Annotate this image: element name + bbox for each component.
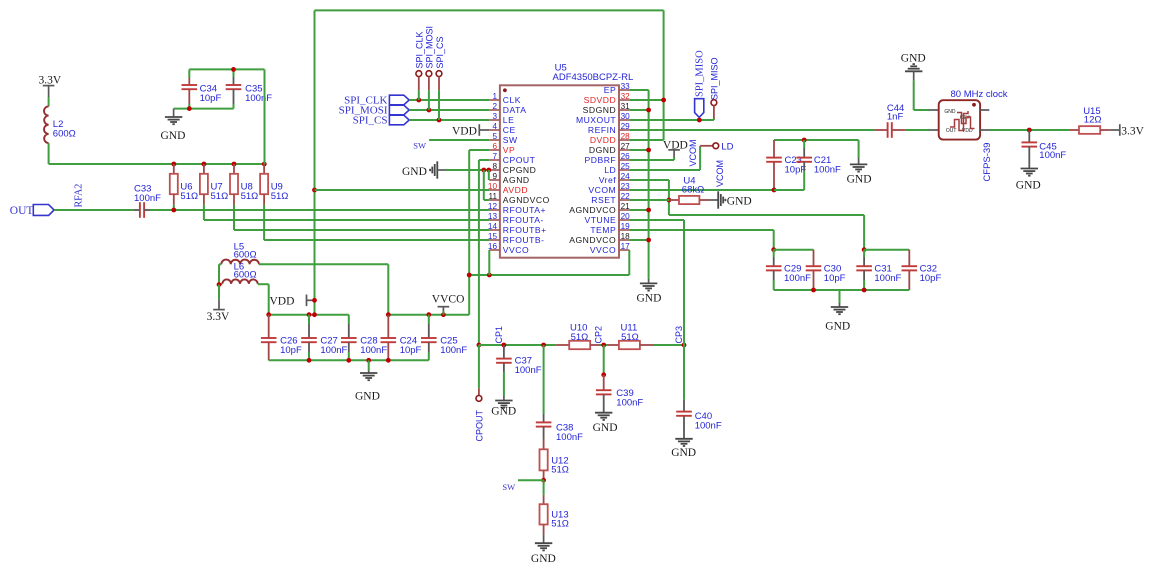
svg-text:6: 6 bbox=[492, 142, 497, 151]
global label OUT bbox=[33, 205, 54, 216]
global label SPI_CS bbox=[389, 115, 409, 125]
svg-text:7: 7 bbox=[492, 152, 497, 161]
capacitor C38 100nF bbox=[543, 345, 545, 414]
wire SDVDD bbox=[629, 99, 663, 101]
svg-text:10pF: 10pF bbox=[920, 273, 942, 284]
junction bbox=[202, 162, 207, 167]
ground bbox=[905, 64, 922, 71]
svg-text:SPI_CS: SPI_CS bbox=[435, 36, 445, 68]
svg-text:600Ω: 600Ω bbox=[234, 250, 257, 261]
svg-text:11: 11 bbox=[489, 192, 498, 201]
wire bbox=[774, 249, 814, 251]
capacitor C24 10pF bbox=[387, 315, 389, 338]
svg-text:51Ω: 51Ω bbox=[621, 332, 639, 343]
svg-text:GND: GND bbox=[161, 130, 186, 142]
pin 12 RFOUTA+ bbox=[489, 209, 500, 211]
svg-text:PDBRF: PDBRF bbox=[585, 155, 617, 165]
pin 5 SW bbox=[489, 139, 500, 141]
svg-text:CPOUT: CPOUT bbox=[475, 409, 485, 441]
wire SPI_CS bbox=[409, 119, 489, 121]
resistor U4 68k&#937; bbox=[669, 199, 679, 201]
svg-text:27: 27 bbox=[621, 142, 631, 151]
ground bbox=[831, 307, 848, 314]
wire CPOUT bbox=[479, 159, 489, 161]
capacitor C26 10pF bbox=[268, 315, 270, 338]
global label SPI_MISO bbox=[695, 99, 704, 118]
resistor U6 51&#937; bbox=[173, 164, 175, 174]
junction bbox=[541, 343, 546, 348]
svg-text:SPI_CLK: SPI_CLK bbox=[415, 31, 425, 68]
ground bbox=[430, 161, 437, 178]
wire bbox=[654, 344, 684, 346]
pin 9 AGND bbox=[489, 179, 500, 181]
svg-text:CPGND: CPGND bbox=[503, 165, 537, 175]
junction bbox=[862, 288, 867, 293]
junction bbox=[262, 162, 267, 167]
oscillator internal symbol bbox=[950, 111, 968, 131]
wire gnd bus bbox=[648, 90, 650, 279]
junction bbox=[541, 478, 546, 483]
pin 27 DGND bbox=[619, 149, 629, 151]
svg-text:RFOUTA+: RFOUTA+ bbox=[503, 205, 546, 215]
junction bbox=[232, 162, 237, 167]
wire C23 top rail bbox=[774, 139, 859, 141]
svg-text:8: 8 bbox=[492, 162, 497, 171]
junction bbox=[386, 358, 391, 363]
svg-text:RFOUTB-: RFOUTB- bbox=[503, 235, 545, 245]
svg-text:GND: GND bbox=[825, 321, 850, 333]
svg-text:EP: EP bbox=[604, 85, 616, 95]
svg-text:GND: GND bbox=[727, 195, 752, 207]
svg-text:17: 17 bbox=[621, 242, 631, 251]
svg-text:GND: GND bbox=[637, 293, 662, 305]
wire DVDD bbox=[629, 139, 663, 141]
capacitor C27 100nF bbox=[308, 315, 310, 324]
svg-text:2: 2 bbox=[492, 102, 497, 111]
svg-text:GND: GND bbox=[671, 447, 696, 459]
svg-text:24: 24 bbox=[621, 172, 631, 181]
pin 33 EP bbox=[619, 89, 629, 91]
junction bbox=[646, 108, 651, 113]
svg-text:GND: GND bbox=[402, 166, 427, 178]
junction bbox=[771, 247, 776, 252]
pin 10 AVDD bbox=[489, 189, 500, 191]
power flag 3.3V at U15 bbox=[1110, 129, 1120, 131]
wire SW bbox=[518, 479, 544, 481]
junction bbox=[307, 312, 312, 317]
svg-text:15: 15 bbox=[488, 232, 498, 241]
svg-text:51Ω: 51Ω bbox=[551, 519, 569, 530]
svg-text:100nF: 100nF bbox=[616, 397, 643, 408]
wire bbox=[268, 284, 270, 315]
ground bbox=[1021, 169, 1038, 176]
inductor L5 bbox=[221, 260, 259, 265]
wire bbox=[48, 97, 50, 106]
pin 18 AGNDVCO bbox=[619, 239, 629, 241]
junction CP2 bbox=[601, 343, 606, 348]
svg-text:SDGND: SDGND bbox=[583, 105, 617, 115]
pin 14 RFOUTB+ bbox=[489, 229, 500, 231]
wire bbox=[48, 143, 50, 164]
capacitor C35 100nF bbox=[233, 69, 235, 77]
svg-text:VVCO: VVCO bbox=[590, 245, 616, 255]
svg-text:100nF: 100nF bbox=[695, 420, 722, 431]
wire RFOUTB+ bbox=[234, 229, 489, 231]
pin 13 RFOUTA- bbox=[489, 219, 500, 221]
wire bbox=[863, 215, 865, 250]
inductor L2 bbox=[44, 106, 49, 143]
wire bbox=[864, 249, 909, 251]
svg-text:100nF: 100nF bbox=[515, 365, 542, 376]
svg-text:10pF: 10pF bbox=[785, 164, 807, 175]
svg-text:51Ω: 51Ω bbox=[241, 191, 259, 202]
wire cap gnd rail bbox=[269, 359, 429, 361]
svg-text:51Ω: 51Ω bbox=[211, 191, 229, 202]
svg-text:600Ω: 600Ω bbox=[234, 270, 257, 281]
capacitor C30 10pF bbox=[813, 250, 815, 267]
svg-text:AGNDVCO: AGNDVCO bbox=[503, 195, 550, 205]
ground bbox=[675, 439, 692, 446]
resistor U10 51&#937; bbox=[556, 344, 569, 346]
junction bbox=[366, 358, 371, 363]
junction bbox=[772, 188, 777, 193]
svg-text:18: 18 bbox=[621, 232, 631, 241]
svg-text:AGNDVCO: AGNDVCO bbox=[569, 205, 616, 215]
oscillator U? 80 MHz clock CFPS-39 bbox=[939, 100, 980, 139]
svg-text:100nF: 100nF bbox=[134, 193, 161, 204]
junction bbox=[487, 273, 492, 278]
junction bbox=[427, 108, 432, 113]
svg-text:VVCO: VVCO bbox=[432, 293, 465, 305]
pin 11 AGNDVCO bbox=[489, 199, 500, 201]
pin 22 RSET bbox=[619, 199, 629, 201]
capacitor C25 100nF bbox=[428, 315, 430, 324]
svg-text:GND: GND bbox=[901, 53, 926, 65]
svg-text:100nF: 100nF bbox=[784, 273, 811, 284]
svg-text:VP: VP bbox=[503, 145, 515, 155]
svg-text:OUT: OUT bbox=[946, 128, 957, 134]
wire bbox=[484, 199, 490, 201]
svg-text:100nF: 100nF bbox=[440, 345, 467, 356]
wire RFOUTB- bbox=[264, 239, 489, 241]
svg-text:AVDD: AVDD bbox=[503, 185, 528, 195]
capacitor C44 1nF bbox=[875, 129, 888, 131]
global label SPI_MOSI bbox=[389, 105, 409, 115]
junction bbox=[312, 312, 317, 317]
svg-text:10: 10 bbox=[488, 182, 498, 191]
wire bias rail bbox=[49, 163, 265, 165]
wire bbox=[219, 283, 222, 285]
wire bbox=[174, 108, 234, 110]
svg-text:30: 30 bbox=[621, 112, 631, 121]
svg-text:32: 32 bbox=[621, 92, 631, 101]
wire bbox=[387, 264, 389, 314]
svg-text:DVDD: DVDD bbox=[590, 135, 616, 145]
inductor L6 bbox=[222, 279, 257, 283]
pin 24 Vref bbox=[619, 179, 629, 181]
test point CPOUT bbox=[478, 345, 480, 388]
wire SW bbox=[429, 139, 489, 141]
wire AVDD bbox=[315, 189, 490, 191]
wire pin16 bbox=[488, 250, 490, 275]
wire EP bbox=[629, 89, 648, 91]
svg-text:600Ω: 600Ω bbox=[53, 129, 76, 140]
svg-text:28: 28 bbox=[621, 132, 631, 141]
svg-text:16: 16 bbox=[488, 242, 498, 251]
wire RFOUTA+ bbox=[150, 209, 489, 211]
pin 2 DATA bbox=[489, 109, 500, 111]
svg-text:SW: SW bbox=[503, 135, 518, 145]
svg-text:26: 26 bbox=[621, 152, 631, 161]
resistor U15 12&#937; bbox=[1069, 129, 1079, 131]
svg-text:VCOM: VCOM bbox=[715, 160, 725, 187]
wire bbox=[219, 263, 221, 265]
pin 29 REFIN bbox=[619, 129, 629, 131]
pin 19 TEMP bbox=[619, 229, 629, 231]
svg-text:10pF: 10pF bbox=[400, 345, 422, 356]
svg-text:29: 29 bbox=[621, 122, 631, 131]
wire VVCO cap rail bbox=[388, 314, 469, 316]
wire AGNDVCO bbox=[629, 239, 648, 241]
svg-text:VTUNE: VTUNE bbox=[585, 215, 617, 225]
pin 20 VTUNE bbox=[619, 219, 629, 221]
svg-text:4: 4 bbox=[492, 122, 497, 131]
svg-text:CE: CE bbox=[503, 125, 516, 135]
wire VP vertical bbox=[468, 150, 470, 315]
svg-text:10pF: 10pF bbox=[200, 93, 222, 104]
pin 4 CE bbox=[489, 129, 500, 131]
capacitor C33 100nF bbox=[134, 209, 140, 211]
svg-text:SPI_CS: SPI_CS bbox=[353, 115, 388, 127]
pin 21 AGNDVCO bbox=[619, 209, 629, 211]
svg-text:CP2: CP2 bbox=[594, 326, 604, 344]
svg-text:MUXOUT: MUXOUT bbox=[576, 115, 616, 125]
svg-text:Vref: Vref bbox=[599, 175, 617, 185]
capacitor C37 100nF bbox=[503, 345, 505, 359]
svg-text:5: 5 bbox=[492, 132, 497, 141]
junction bbox=[1027, 128, 1032, 133]
wire VTUNE bbox=[629, 219, 684, 221]
pin 6 VP bbox=[489, 149, 500, 151]
svg-text:51Ω: 51Ω bbox=[271, 191, 289, 202]
svg-text:VDD: VDD bbox=[452, 125, 477, 137]
wire clock VDD bbox=[980, 129, 990, 131]
svg-text:100nF: 100nF bbox=[814, 164, 841, 175]
wire SPI_CLK bbox=[409, 99, 489, 101]
capacitor C28 100nF bbox=[348, 315, 350, 324]
svg-text:LD: LD bbox=[604, 165, 616, 175]
wire bbox=[773, 230, 775, 250]
junction bbox=[437, 118, 442, 123]
svg-text:13: 13 bbox=[488, 212, 498, 221]
wire SDGND bbox=[629, 109, 648, 111]
svg-text:GND: GND bbox=[1016, 180, 1041, 192]
svg-text:VVCO: VVCO bbox=[503, 245, 529, 255]
svg-text:31: 31 bbox=[621, 102, 631, 111]
svg-text:80 MHz clock: 80 MHz clock bbox=[951, 89, 1008, 100]
svg-text:3: 3 bbox=[492, 112, 497, 121]
junction bbox=[467, 273, 472, 278]
junction bbox=[187, 106, 192, 111]
pin 32 SDVDD bbox=[619, 99, 629, 101]
svg-text:68kΩ: 68kΩ bbox=[682, 185, 704, 196]
junction bbox=[646, 238, 651, 243]
svg-text:RFOUTB+: RFOUTB+ bbox=[503, 225, 547, 235]
svg-text:22: 22 bbox=[621, 192, 631, 201]
wire pin17 bbox=[628, 250, 630, 275]
svg-text:14: 14 bbox=[488, 222, 498, 231]
capacitor C39 100nF bbox=[603, 345, 605, 375]
power flag 3.3V at L6 bbox=[218, 285, 220, 300]
svg-text:DGND: DGND bbox=[589, 145, 616, 155]
wire CP1 rail bbox=[479, 344, 556, 346]
resistor U9 51&#937; bbox=[263, 164, 265, 174]
svg-text:3.3V: 3.3V bbox=[39, 75, 62, 87]
junction bbox=[697, 118, 702, 123]
svg-text:VDD: VDD bbox=[270, 296, 295, 308]
pin 23 VCOM bbox=[619, 189, 629, 191]
pin 8 CPGND bbox=[489, 169, 500, 171]
junction bbox=[231, 67, 236, 72]
pin 16 VVCO bbox=[489, 249, 500, 251]
wire Vref to C31 bbox=[669, 214, 864, 216]
wire bbox=[258, 283, 269, 285]
junction bbox=[312, 298, 317, 303]
wire MUXOUT bbox=[629, 119, 714, 121]
svg-text:DATA: DATA bbox=[503, 105, 527, 115]
capacitor C29 100nF bbox=[773, 250, 775, 257]
test point SPI_CLK bbox=[416, 71, 422, 77]
wire CPOUT vertical bbox=[478, 160, 480, 345]
wire bbox=[189, 68, 264, 70]
junction bbox=[312, 188, 317, 193]
svg-text:SPI_MOSI: SPI_MOSI bbox=[425, 26, 435, 69]
svg-text:SDVDD: SDVDD bbox=[584, 95, 617, 105]
wire bbox=[600, 344, 608, 346]
wire AGND bbox=[488, 170, 490, 180]
wire REFIN bbox=[629, 129, 874, 131]
junction bbox=[661, 98, 666, 103]
junction bbox=[171, 208, 176, 213]
wire SPI_MOSI bbox=[409, 109, 489, 111]
capacitor C21 100nF bbox=[803, 140, 805, 148]
svg-text:VCOM: VCOM bbox=[688, 140, 698, 167]
pin 25 LD bbox=[619, 169, 629, 171]
svg-text:AGND: AGND bbox=[503, 175, 530, 185]
svg-text:OUT: OUT bbox=[10, 205, 34, 217]
svg-text:12Ω: 12Ω bbox=[1084, 115, 1102, 126]
svg-text:GND: GND bbox=[944, 109, 956, 115]
wire bbox=[668, 180, 670, 215]
junction bbox=[307, 358, 312, 363]
wire bbox=[264, 69, 266, 164]
svg-text:GND: GND bbox=[847, 174, 872, 186]
capacitor C23 10pF bbox=[773, 140, 775, 159]
pin OE# bbox=[980, 109, 989, 111]
svg-text:CP1: CP1 bbox=[494, 326, 504, 344]
svg-text:10pF: 10pF bbox=[824, 273, 846, 284]
wire AGNDVCO bbox=[483, 170, 485, 200]
svg-text:RFOUTA-: RFOUTA- bbox=[503, 215, 544, 225]
wire VDD cap rail bbox=[269, 314, 349, 316]
svg-text:CFPS-39: CFPS-39 bbox=[982, 143, 993, 182]
wire AGNDVCO bbox=[629, 209, 648, 211]
svg-text:1: 1 bbox=[492, 92, 497, 101]
svg-text:CP3: CP3 bbox=[674, 326, 684, 344]
svg-text:51Ω: 51Ω bbox=[571, 332, 589, 343]
ground bbox=[165, 117, 182, 124]
wire RFOUTA- bbox=[204, 219, 489, 221]
junction bbox=[171, 162, 176, 167]
wire VDD top bbox=[315, 9, 664, 11]
ground at C29-C32 bbox=[839, 290, 841, 303]
ground bbox=[850, 164, 867, 171]
resistor U11 51&#937; bbox=[608, 344, 619, 346]
wire bbox=[774, 189, 804, 191]
svg-text:RSET: RSET bbox=[591, 195, 616, 205]
test point SPI_MISO bbox=[711, 100, 717, 106]
svg-text:19: 19 bbox=[621, 222, 631, 231]
svg-text:AGNDVCO: AGNDVCO bbox=[569, 235, 616, 245]
junction bbox=[601, 372, 606, 377]
svg-text:LD: LD bbox=[721, 142, 733, 153]
pin 1 CLK bbox=[489, 99, 500, 101]
junction bbox=[386, 312, 391, 317]
pin 26 PDBRF bbox=[619, 159, 629, 161]
junction bbox=[811, 288, 816, 293]
junction bbox=[862, 247, 867, 252]
svg-text:25: 25 bbox=[621, 162, 631, 171]
junction CP3 bbox=[682, 343, 687, 348]
wire LD bbox=[629, 169, 700, 171]
svg-text:SPI_MISO: SPI_MISO bbox=[710, 57, 720, 100]
junction bbox=[646, 208, 651, 213]
pin 15 RFOUTB- bbox=[489, 239, 500, 241]
global label SPI_CLK bbox=[389, 95, 409, 105]
junction bbox=[266, 312, 271, 317]
wire CPGND bbox=[445, 169, 489, 171]
svg-text:CLK: CLK bbox=[503, 95, 521, 105]
junction bbox=[667, 198, 672, 203]
ground at cap bank bbox=[368, 360, 370, 370]
svg-text:12: 12 bbox=[488, 202, 498, 211]
svg-text:REFIN: REFIN bbox=[588, 125, 616, 135]
svg-text:RFA2: RFA2 bbox=[74, 184, 85, 208]
ground bbox=[535, 543, 552, 550]
svg-text:100nF: 100nF bbox=[360, 345, 387, 356]
svg-text:10pF: 10pF bbox=[280, 345, 302, 356]
wire bbox=[699, 146, 701, 170]
wire VVCO link bbox=[469, 274, 629, 276]
junction bbox=[481, 168, 486, 173]
resistor U12 51&#937; bbox=[543, 439, 545, 449]
junction bbox=[426, 312, 431, 317]
svg-text:GND: GND bbox=[593, 422, 618, 434]
ground bbox=[173, 109, 175, 117]
svg-text:SW: SW bbox=[413, 140, 426, 150]
resistor U13 51&#937; bbox=[543, 495, 545, 504]
svg-text:100nF: 100nF bbox=[1039, 150, 1066, 161]
pin 7 CPOUT bbox=[489, 159, 500, 161]
wire RFA2 net bbox=[54, 209, 134, 211]
svg-text:33: 33 bbox=[621, 82, 631, 91]
pin 17 VVCO bbox=[619, 249, 629, 251]
ground at bus bbox=[648, 279, 650, 283]
svg-text:GND: GND bbox=[355, 391, 380, 403]
svg-text:1nF: 1nF bbox=[887, 111, 904, 122]
svg-text:SW: SW bbox=[502, 482, 515, 492]
wire RSET bbox=[629, 199, 669, 201]
